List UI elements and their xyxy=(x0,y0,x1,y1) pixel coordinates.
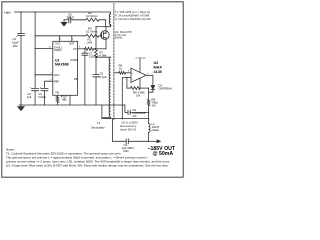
svg-text:16V: 16V xyxy=(13,44,18,48)
wire xyxy=(94,48,107,50)
node +5V rail xyxy=(15,12,111,14)
junction dots xyxy=(20,11,149,142)
wire fb drop xyxy=(126,78,128,89)
wire GND stub xyxy=(69,95,71,105)
svg-text:T1: 1N5-4155 Lpri = 10µH (2): T1: 1N5-4155 Lpri = 10µH (2) xyxy=(115,10,150,14)
capacitor C1 xyxy=(18,34,25,36)
border frame xyxy=(2,2,183,177)
ground xyxy=(20,105,22,106)
svg-text:1500pF: 1500pF xyxy=(89,55,99,59)
svg-text:P: 24 turns #28AWG KYNAR: P: 24 turns #28AWG KYNAR xyxy=(115,14,150,18)
wire supply stub xyxy=(139,59,141,73)
svg-text:EXT: EXT xyxy=(70,42,75,46)
wire xyxy=(148,106,150,124)
resistor R2 xyxy=(86,18,99,21)
wire secondary bottom xyxy=(102,105,149,119)
svg-text:10 Ohms: 10 Ohms xyxy=(86,14,98,18)
svg-text:T1: T1 xyxy=(97,121,101,125)
wire xyxy=(20,36,22,106)
svg-text:U1: U1 xyxy=(55,59,60,63)
transformer core xyxy=(113,4,115,120)
annotation transformer spec xyxy=(115,10,151,39)
wire -in xyxy=(122,78,131,119)
wire EXT stub xyxy=(71,36,73,42)
wire snubber column xyxy=(95,27,97,49)
ground bus xyxy=(19,104,125,106)
svg-text:FB: FB xyxy=(74,77,78,81)
svg-text:CS: CS xyxy=(73,47,77,51)
notes xyxy=(6,148,170,168)
wire REF xyxy=(45,81,53,88)
svg-text:C2: C2 xyxy=(28,92,32,96)
svg-text:VCC: VCC xyxy=(55,42,61,46)
pin labels U1 xyxy=(54,42,78,95)
capacitor C7 xyxy=(82,49,88,105)
wire xyxy=(128,140,148,142)
resistor R7 xyxy=(95,48,98,58)
svg-text:Notes:: Notes: xyxy=(6,148,15,152)
capacitor C5 xyxy=(93,75,99,77)
svg-text:PGND: PGND xyxy=(71,58,79,62)
svg-text:1%: 1% xyxy=(136,94,141,98)
capacitor C2 xyxy=(32,88,39,105)
wire xyxy=(64,19,69,21)
pin numbers U1 xyxy=(49,39,82,100)
wire xyxy=(95,58,97,75)
resistor R1 xyxy=(85,47,94,50)
resistor R6 xyxy=(119,71,126,74)
wire output xyxy=(149,140,157,142)
svg-text:primary current rating >= 2 am: primary current rating >= 2 amps, turns … xyxy=(6,160,170,164)
capacitor C3 xyxy=(41,88,48,105)
wire xyxy=(126,72,131,74)
wire xyxy=(130,111,148,113)
svg-text:LDO: LDO xyxy=(54,73,59,77)
svg-text:1%: 1% xyxy=(152,104,157,108)
inductor L1 xyxy=(149,124,150,133)
capacitor C6 xyxy=(69,17,71,23)
wire LDO xyxy=(35,74,53,76)
svg-text:10 Ohms: 10 Ohms xyxy=(86,30,98,34)
svg-text:CMPD914: CMPD914 xyxy=(159,87,173,91)
transformer T1 primary xyxy=(109,14,110,25)
resistor R3 xyxy=(86,34,99,37)
diode D2 xyxy=(128,110,130,114)
resistor R10 xyxy=(57,95,59,96)
wire input bus xyxy=(34,12,36,88)
diode D1 xyxy=(151,86,155,90)
chip U1 MAX668 xyxy=(53,41,78,95)
svg-text:FB: FB xyxy=(56,91,60,95)
svg-text:MAX: MAX xyxy=(154,66,163,70)
svg-text:0.22µF: 0.22µF xyxy=(38,95,47,99)
svg-text:REF: REF xyxy=(54,80,60,84)
wire xyxy=(140,87,148,89)
svg-text:0.1µF: 0.1µF xyxy=(100,75,108,79)
svg-text:1%: 1% xyxy=(133,114,138,118)
svg-text:+5 LED pin: +5 LED pin xyxy=(135,58,147,60)
wire VCC stub xyxy=(58,36,60,42)
text labels (scaled 0.5 to allow tiny glyphs) xyxy=(4,10,176,168)
wire C1 branch xyxy=(20,12,22,33)
wire fb chain xyxy=(148,88,150,99)
svg-text:Film: Film xyxy=(124,149,130,153)
wire gnd stub xyxy=(139,78,141,88)
wire out xyxy=(146,75,153,85)
svg-text:1µF: 1µF xyxy=(27,95,32,99)
transformer winding bottom xyxy=(103,117,110,118)
op-amp U2 xyxy=(131,68,146,82)
svg-text:diode DO-41: diode DO-41 xyxy=(120,128,137,132)
ground (C6 return) xyxy=(63,20,65,22)
wire xyxy=(127,87,131,89)
wire drain row xyxy=(96,26,111,28)
resistor R4 xyxy=(147,99,150,105)
svg-text:48k: 48k xyxy=(62,98,67,102)
svg-text:4.99k: 4.99k xyxy=(100,54,108,58)
transistor Q1 xyxy=(101,31,110,40)
svg-text:S: 124 turns #32AWG (2L) EA: S: 124 turns #32AWG (2L) EA xyxy=(115,17,151,21)
svg-text:Secondary: Secondary xyxy=(91,126,105,130)
capacitor C4 xyxy=(126,139,128,144)
svg-text:SHDN: SHDN xyxy=(54,48,61,52)
svg-text:50Vds: 50Vds xyxy=(115,35,123,39)
annotation D2 xyxy=(120,121,138,132)
wire gate branch xyxy=(35,35,86,37)
wire SHDN xyxy=(35,47,53,49)
wire xyxy=(95,77,97,105)
transformer T1 secondary xyxy=(109,57,111,117)
svg-text:@ 50mA: @ 50mA xyxy=(153,151,174,157)
svg-text:C3: C3 xyxy=(39,92,43,96)
svg-text:.249: .249 xyxy=(87,41,93,45)
wire xyxy=(99,20,106,27)
wire return xyxy=(112,119,126,142)
svg-text:MAX668: MAX668 xyxy=(55,63,69,67)
svg-text:The general specs are primary: The general specs are primary L = approx… xyxy=(6,156,148,160)
svg-text:+5V: +5V xyxy=(4,10,12,15)
wire xyxy=(99,35,102,37)
svg-text:2.2µF: 2.2µF xyxy=(67,16,75,20)
svg-text:U2: U2 xyxy=(154,61,159,65)
svg-text:4130: 4130 xyxy=(154,70,162,74)
svg-text:Q1: A logic-level (Ron rated a: Q1: A logic-level (Ron rated at 5V) N-FE… xyxy=(6,164,169,168)
wire snubber top xyxy=(96,56,111,58)
svg-text:T1: Coilcraft Standard Geometr: T1: Coilcraft Standard Geometry 505-0155… xyxy=(6,152,121,156)
svg-text:choke: choke xyxy=(152,128,160,132)
wire xyxy=(148,132,150,141)
wire CS xyxy=(78,48,85,50)
wire to +in xyxy=(115,72,119,74)
wire D2 branch xyxy=(125,105,128,112)
resistor R5 xyxy=(131,87,141,90)
wire xyxy=(71,19,86,21)
